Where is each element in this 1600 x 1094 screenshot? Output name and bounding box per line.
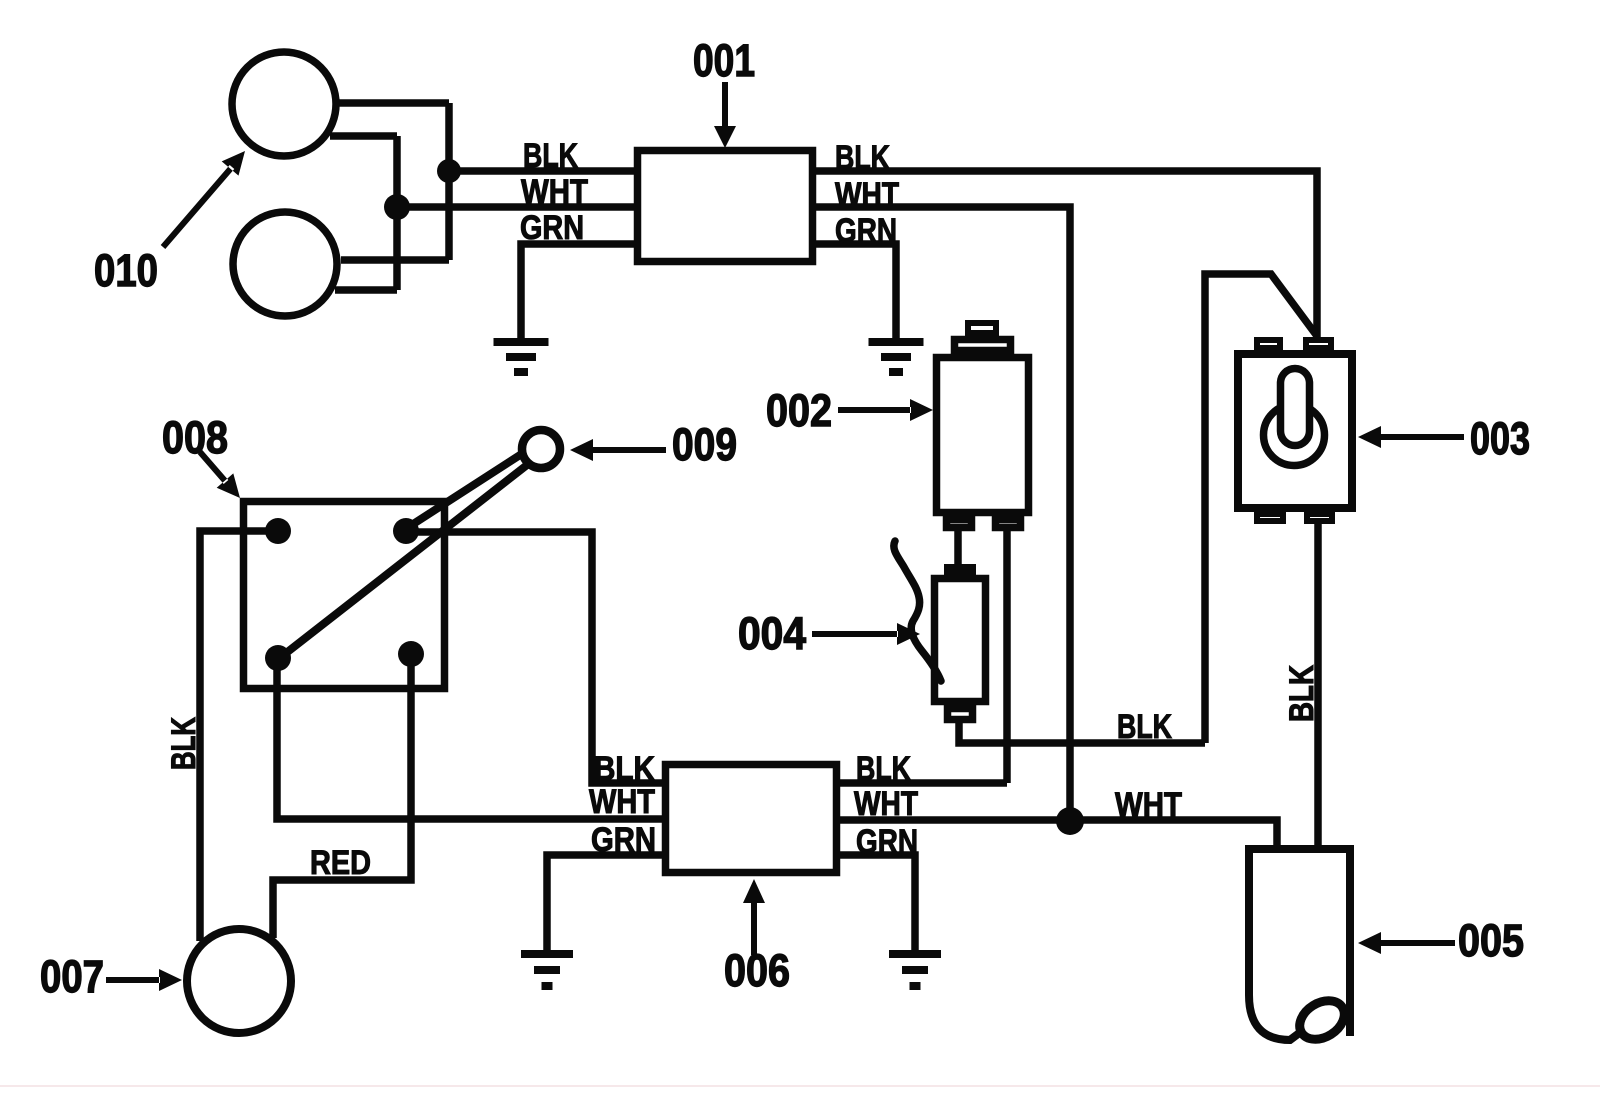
faint page edge line [0, 1085, 1600, 1087]
svg-text:009: 009 [672, 419, 737, 470]
wire: headlamp1 lower terminal to WHT bus [330, 132, 397, 140]
svg-text:WHT: WHT [835, 176, 899, 214]
junction dot WHT run [1056, 807, 1084, 835]
svg-text:GRN: GRN [856, 823, 918, 861]
wire: 006 GRN right to ground [840, 855, 915, 950]
svg-text:BLK: BLK [856, 750, 911, 788]
coil 002 right terminal [996, 520, 1021, 528]
wire: 002 right terminal down to 006 BLK [1003, 531, 1011, 783]
wire: BLK into 001 left [449, 167, 634, 175]
relay box 001 [638, 151, 813, 262]
ground symbol G4 [889, 954, 941, 986]
svg-text:004: 004 [738, 608, 806, 659]
svg-text:BLK: BLK [1283, 665, 1321, 722]
switch 008 terminal dot upper-right [393, 518, 419, 544]
headlamp circle lower (010) [233, 212, 337, 316]
wire: switch 003 bottom to 005 [1314, 522, 1322, 845]
arrow to 008 [198, 450, 240, 498]
ground symbol G2 [869, 342, 924, 372]
wire: GRN right of 001 to ground [816, 244, 896, 338]
wire: BLK bus to headlamp2 top terminal [341, 256, 449, 264]
svg-text:008: 008 [162, 412, 228, 463]
arrow to 002 [838, 399, 933, 421]
svg-text:WHT: WHT [589, 783, 655, 821]
wire: switch 008 upper-left terminal to lamp 007 (BLK) [200, 531, 278, 941]
coil 002 body [937, 358, 1029, 513]
wire: WHT bus vertical [393, 136, 401, 290]
svg-text:GRN: GRN [835, 212, 897, 250]
switch 003 top-left terminal [1257, 340, 1280, 348]
switch 008 lever arms [281, 446, 536, 657]
lever knob 009 [522, 430, 560, 468]
cable 005 right edge [1346, 845, 1354, 1036]
condenser 004 body [935, 579, 986, 702]
cable 005 end loop [1293, 993, 1352, 1047]
switch 003 body [1238, 354, 1352, 508]
svg-text:006: 006 [724, 945, 790, 996]
wire: WHT right of 001 down to junction [816, 207, 1070, 821]
wire: 006 GRN left to ground [547, 855, 662, 950]
svg-text:005: 005 [1458, 915, 1524, 966]
svg-text:BLK: BLK [165, 717, 203, 770]
svg-text:RED: RED [310, 844, 371, 882]
loose lead squiggle at 004 [894, 541, 941, 681]
ground symbol G3 [521, 954, 573, 986]
switch 008 body [244, 502, 445, 689]
switch 003 toggle circle [1264, 405, 1325, 466]
wire: 006 BLK left up to switch 008 [406, 532, 662, 783]
switch 003 bottom-right terminal [1307, 514, 1332, 521]
svg-text:WHT: WHT [854, 785, 918, 823]
switch 008 terminal dot lower-right [398, 641, 424, 667]
arrow to 005 [1358, 932, 1455, 954]
switch 003 bottom-left terminal [1257, 514, 1283, 521]
switch 008 terminal dot upper-left [265, 518, 291, 544]
svg-text:WHT: WHT [521, 173, 588, 211]
switch 008 terminal dot lower-left [265, 645, 291, 671]
wire: headlamp1 top terminal to BLK bus [338, 99, 449, 107]
svg-text:BLK: BLK [1117, 708, 1172, 746]
headlamp circle upper (010) [232, 52, 336, 156]
coil 002 left terminal [947, 520, 972, 528]
svg-text:BLK: BLK [523, 137, 578, 175]
arrow to 009 [570, 439, 666, 461]
wire: 006 BLK right [840, 779, 1007, 787]
wire: 006 WHT left to switch 008 lower-left terminal [277, 658, 662, 819]
wire: BLK right of 001 to switch 003 [816, 171, 1317, 341]
condenser 004 bottom terminal [948, 709, 973, 720]
switch 003 toggle capsule [1281, 369, 1310, 446]
svg-text:001: 001 [693, 35, 755, 86]
arrow to 007 [106, 969, 182, 991]
svg-text:BLK: BLK [835, 139, 890, 177]
junction dot BLK bus [437, 159, 461, 183]
control box 006 [666, 765, 837, 873]
arrow to 006 [743, 879, 765, 955]
switch 003 top-right terminal [1306, 340, 1331, 348]
arrow to 003 [1358, 426, 1464, 448]
wire: 002 left terminal to 004 [954, 531, 962, 566]
wire: BLK bus vertical [445, 103, 453, 260]
arrow to 010 [161, 151, 245, 249]
svg-text:003: 003 [1470, 413, 1530, 464]
svg-text:007: 007 [40, 951, 104, 1002]
wire: BLK run up and diagonal into switch 003 [1205, 274, 1317, 743]
junction dot WHT bus [384, 194, 410, 220]
wire: 006 WHT right to 005 [840, 820, 1277, 845]
svg-text:GRN: GRN [520, 209, 584, 247]
svg-text:010: 010 [94, 245, 158, 296]
wire: WHT into 001 left [397, 203, 634, 211]
svg-text:002: 002 [766, 385, 832, 436]
wire: 004 bottom to BLK run [959, 721, 1205, 743]
arrow to 004 [812, 623, 920, 645]
wire: WHT bus to headlamp2 lower terminal [335, 286, 397, 294]
ground symbol G1 [494, 342, 549, 372]
cable 005 top, left and bottom edge [1249, 849, 1353, 1040]
coil 002 cap top [968, 323, 996, 333]
lamp 007 circle [187, 929, 291, 1033]
coil 002 cap middle [955, 340, 1011, 351]
wire: GRN left of 001 to ground [521, 244, 634, 338]
svg-text:WHT: WHT [1115, 786, 1182, 824]
arrow to 001 [714, 82, 736, 148]
condenser 004 top terminal [947, 567, 973, 572]
wire: switch 008 lower-right terminal to lamp 007 (RED) [273, 654, 411, 938]
svg-text:GRN: GRN [591, 821, 656, 859]
